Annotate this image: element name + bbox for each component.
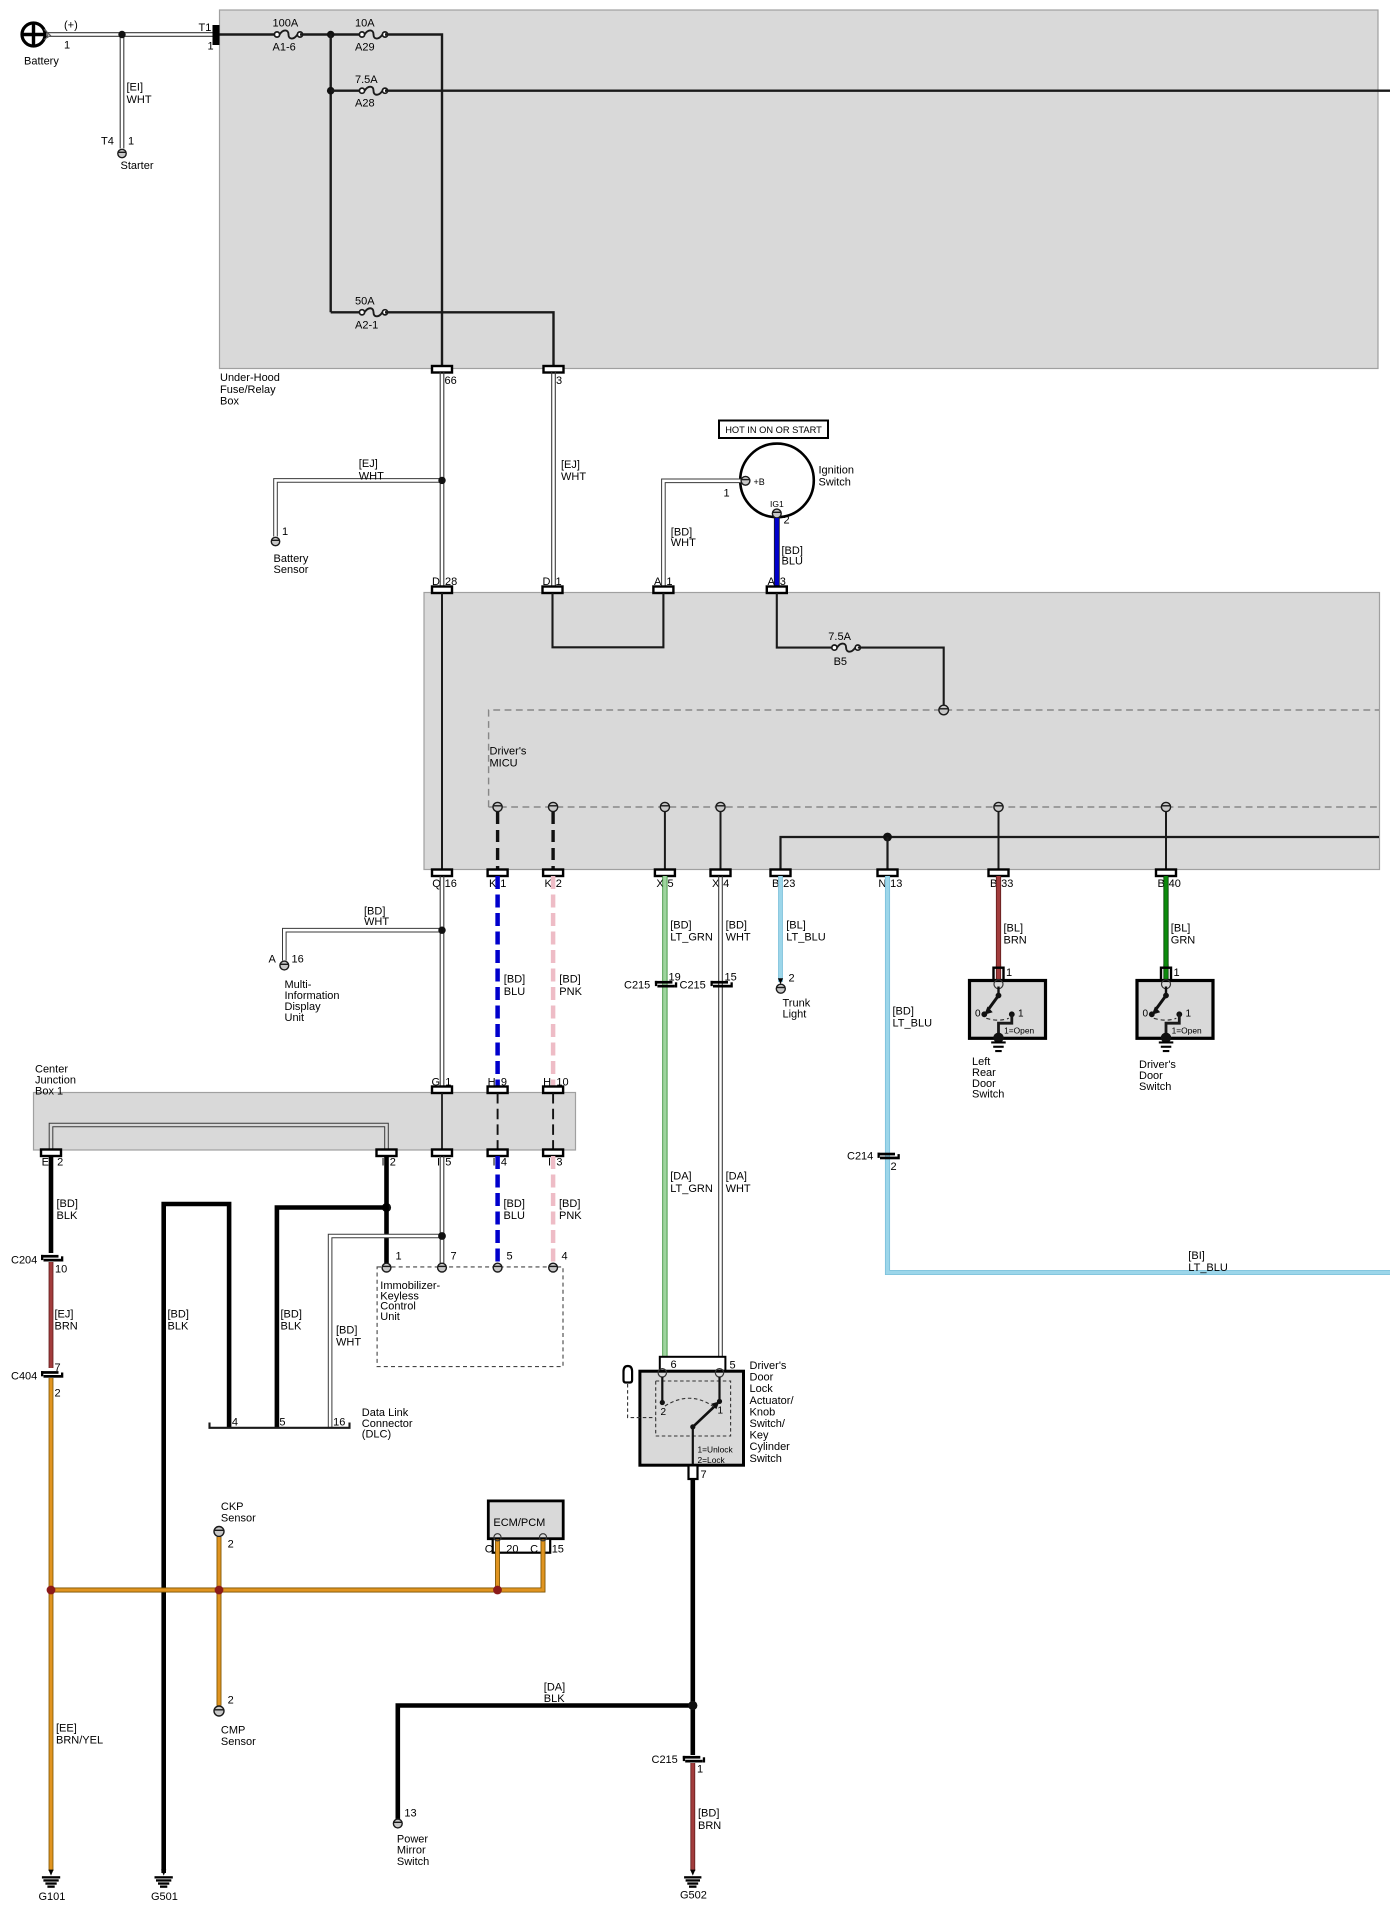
wire 3 to D1 [EJ] WHT [551, 372, 553, 587]
svg-text:1: 1 [718, 1406, 724, 1417]
svg-text:4: 4 [232, 1416, 238, 1428]
svg-text:HOT IN ON OR START: HOT IN ON OR START [725, 425, 822, 435]
svg-text:[BI]: [BI] [1188, 1250, 1205, 1262]
svg-text:BLU: BLU [782, 556, 803, 568]
svg-text:BLK: BLK [544, 1693, 565, 1705]
connector 3 [544, 366, 564, 373]
svg-text:MICU: MICU [490, 758, 518, 770]
key dashed line [628, 1384, 656, 1418]
connector I 2 CJB bottom [377, 1150, 397, 1157]
ground symbol [991, 1041, 1006, 1043]
wire Q16 to G1 [BD] WHT [439, 876, 441, 1087]
connector G 1 CJB top [432, 1087, 452, 1094]
svg-text:A1-6: A1-6 [273, 41, 296, 53]
svg-text:BRN/YEL: BRN/YEL [56, 1734, 103, 1746]
connector D 1 MICU top [543, 587, 563, 594]
wire C215 to G502 [BD] BRN [690, 1763, 695, 1871]
wire T1 to 100A fuse [220, 33, 278, 35]
svg-text:5: 5 [668, 878, 674, 890]
svg-text:BLK: BLK [168, 1320, 189, 1332]
svg-text:15: 15 [552, 1543, 564, 1555]
svg-text:16: 16 [445, 878, 457, 890]
wire K2 to H10 [BD] PNK dashed [551, 876, 556, 1087]
wire G501 to DLC4 BLK [164, 1204, 229, 1873]
svg-text:Sensor: Sensor [274, 564, 309, 576]
svg-text:A2-1: A2-1 [355, 319, 378, 331]
wire branch to battery sensor [276, 480, 443, 536]
dashed I4 to pin5 [BD] BLU [495, 1156, 500, 1263]
svg-text:PNK: PNK [559, 986, 582, 998]
svg-text:[BD]: [BD] [559, 1198, 580, 1210]
svg-text:13: 13 [404, 1807, 416, 1819]
svg-text:C215: C215 [624, 980, 650, 992]
wire X4 to actuator WHT [718, 876, 720, 1373]
ECM/PCM box [488, 1501, 563, 1539]
connector pin1 Left Rear Door Switch [994, 968, 1004, 981]
svg-text:WHT: WHT [561, 471, 586, 483]
svg-text:0: 0 [975, 1009, 981, 1020]
svg-text:Key: Key [750, 1430, 769, 1442]
svg-text:100A: 100A [273, 18, 299, 30]
connector D 28 MICU top [432, 587, 452, 594]
fuse 50A A2-1 [365, 308, 383, 316]
svg-text:2=Lock: 2=Lock [698, 1455, 726, 1465]
MICU internal terminal x=998.5 [994, 802, 1003, 811]
contact 1 to ground path [999, 1014, 1012, 1037]
svg-text:G502: G502 [680, 1890, 707, 1902]
connector K 2 MICU bottom [543, 870, 563, 877]
wire junction to immobilizer pin1 [384, 1208, 389, 1264]
switch pivot line [997, 987, 999, 996]
wire 50A to connector 3 [385, 312, 554, 368]
IG1 terminal [772, 509, 781, 518]
terminal on B5 line [939, 705, 949, 715]
Driver's MICU box body [424, 593, 1380, 870]
ground symbol [1159, 1041, 1174, 1043]
svg-text:33: 33 [1001, 878, 1013, 890]
wire X4 internal [720, 812, 722, 870]
wire A3 to B5 fuse [777, 593, 835, 648]
svg-text:1: 1 [724, 487, 730, 499]
svg-text:BRN: BRN [1004, 935, 1027, 947]
ground G101 [48, 1870, 53, 1876]
svg-text:[BD]: [BD] [168, 1308, 189, 1320]
svg-text:LT_BLU: LT_BLU [1188, 1262, 1228, 1274]
DLC bracket [210, 1423, 350, 1428]
svg-text:40: 40 [1169, 878, 1181, 890]
svg-text:ECM/PCM: ECM/PCM [493, 1517, 545, 1529]
svg-text:Sensor: Sensor [221, 1513, 256, 1525]
actuator travel arc [665, 1398, 714, 1407]
svg-text:[DA]: [DA] [726, 1170, 747, 1182]
pivot dot [996, 993, 1002, 999]
wire B5 fuse to terminal [858, 648, 944, 706]
terminal T1 [213, 25, 220, 45]
svg-text:Ignition: Ignition [819, 464, 854, 476]
wire +B to A1 [663, 481, 745, 587]
connector I 5 CJB bottom [432, 1150, 452, 1157]
svg-text:2: 2 [556, 878, 562, 890]
svg-text:WHT: WHT [336, 1337, 361, 1349]
svg-text:LT_BLU: LT_BLU [786, 932, 826, 944]
wire 66 to D28 [EJ] WHT [439, 372, 441, 587]
fuse 7.5A A28 [365, 87, 383, 95]
contact 1 dot [1009, 1011, 1015, 1017]
svg-text:B5: B5 [834, 656, 847, 668]
connector B 23 MICU bottom [771, 870, 791, 877]
svg-text:I: I [381, 1157, 384, 1169]
svg-text:50A: 50A [355, 296, 375, 308]
fuse 10A A29 [365, 30, 383, 38]
wire battery to T1 [40, 32, 214, 34]
svg-text:WHT: WHT [671, 537, 696, 549]
connector E 2 CJB bottom [41, 1150, 61, 1157]
dashed wire K1 internal [496, 812, 499, 870]
wire junction down to 7.5A level [330, 35, 332, 313]
lever [989, 996, 999, 1009]
svg-text:20: 20 [506, 1543, 518, 1555]
svg-text:0: 0 [1143, 1009, 1149, 1020]
trunk light terminal [776, 984, 785, 993]
svg-text:2: 2 [228, 1539, 234, 1551]
starter terminal [118, 149, 126, 157]
dashed travel arc [1154, 1018, 1177, 1020]
svg-text:[BD]: [BD] [559, 973, 580, 985]
contact 1 dot [1176, 1011, 1182, 1017]
svg-text:G: G [431, 1077, 440, 1089]
svg-text:[EE]: [EE] [56, 1722, 77, 1734]
wire E2 down BLK [49, 1156, 54, 1253]
svg-text:1: 1 [697, 1763, 703, 1775]
svg-text:1: 1 [208, 41, 214, 53]
svg-text:[EI]: [EI] [127, 82, 144, 94]
dashed I3 to pin4 [BD] PNK [551, 1156, 556, 1263]
wire branch to MID unit [284, 930, 442, 960]
svg-text:Switch/: Switch/ [750, 1418, 786, 1430]
wire I5 to junction WHT [439, 1156, 441, 1236]
ignition switch circle [740, 444, 814, 518]
svg-text:1: 1 [556, 576, 562, 588]
ground dot [993, 1033, 1003, 1043]
svg-text:A: A [269, 953, 277, 965]
svg-text:WHT: WHT [726, 932, 751, 944]
Driver's Door Switch box [1137, 981, 1213, 1039]
fuse 7.5A B5 [837, 644, 855, 652]
wire junction to 50A fuse [331, 311, 362, 313]
svg-text:[BL]: [BL] [786, 919, 806, 931]
svg-text:Lock: Lock [750, 1383, 774, 1395]
svg-text:A28: A28 [355, 98, 375, 110]
key symbol [624, 1366, 633, 1383]
wire junction to DLC5 BLK [277, 1208, 387, 1428]
Left Rear Door Switch box [970, 981, 1046, 1039]
connector B 33 MICU bottom [989, 870, 1009, 877]
svg-text:H: H [488, 1077, 496, 1089]
svg-text:[BD]: [BD] [726, 919, 747, 931]
wire into Left Rear Door Switch [996, 965, 1001, 980]
svg-text:BRN: BRN [55, 1320, 78, 1332]
lever [1157, 996, 1167, 1009]
wire B23 riser and bus [781, 837, 1380, 870]
svg-text:Sensor: Sensor [221, 1736, 256, 1748]
wire B33 internal [998, 812, 1000, 870]
pivot dot [1163, 993, 1169, 999]
dashed travel arc [986, 1018, 1009, 1020]
ground dot [1161, 1033, 1171, 1043]
wire D28 to Q16 [441, 593, 443, 870]
lever arrow [984, 1007, 992, 1015]
svg-text:+B: +B [754, 477, 765, 487]
svg-text:Under-Hood: Under-Hood [220, 372, 280, 384]
svg-text:C214: C214 [847, 1151, 873, 1163]
wire junction to DLC16 WHT [330, 1236, 442, 1427]
svg-text:3: 3 [556, 375, 562, 387]
svg-text:A: A [767, 576, 775, 588]
svg-text:WHT: WHT [726, 1183, 751, 1195]
orange BRN/YEL wire net [217, 1537, 222, 1706]
junction dot DA BLK [688, 1701, 697, 1710]
svg-text:Switch: Switch [972, 1089, 1004, 1101]
ring terminal [1162, 980, 1171, 989]
svg-text:[DA]: [DA] [670, 1170, 691, 1182]
connector pin1 Driver's Door Switch [1161, 968, 1171, 981]
svg-text:1: 1 [128, 136, 134, 148]
wire 7.5A to right edge [385, 89, 1390, 91]
wire I2 to junction BLK [384, 1156, 389, 1208]
svg-text:Box: Box [220, 395, 239, 407]
svg-text:BLK: BLK [281, 1320, 302, 1332]
svg-text:WHT: WHT [364, 916, 389, 928]
svg-text:Mirror: Mirror [397, 1845, 426, 1857]
svg-text:5: 5 [279, 1416, 285, 1428]
inline connector C204 [41, 1255, 59, 1258]
Under-Hood Fuse/Relay Box body [220, 10, 1379, 369]
hot in on or start box [719, 421, 828, 439]
immobilizer pin terminals [382, 1263, 391, 1272]
svg-text:4: 4 [501, 1157, 507, 1169]
svg-text:Unit: Unit [285, 1012, 305, 1024]
wire B40 internal [1165, 812, 1167, 870]
connector H 9 CJB top [488, 1087, 508, 1094]
svg-text:2: 2 [891, 1161, 897, 1173]
svg-text:Switch: Switch [1139, 1081, 1171, 1093]
svg-text:10A: 10A [355, 18, 375, 30]
svg-text:A: A [654, 576, 662, 588]
actuator pin2 line [661, 1377, 663, 1403]
svg-text:G101: G101 [39, 1891, 66, 1903]
wire junction to starter [119, 35, 121, 149]
svg-text:1: 1 [666, 576, 672, 588]
svg-text:LT_BLU: LT_BLU [893, 1018, 933, 1030]
svg-text:7: 7 [451, 1251, 457, 1263]
svg-text:5: 5 [730, 1359, 736, 1371]
MICU internal terminal x=1166 [1161, 802, 1170, 811]
svg-text:[BD]: [BD] [504, 1198, 525, 1210]
svg-text:2: 2 [228, 1695, 234, 1707]
svg-text:CMP: CMP [221, 1725, 245, 1737]
wire B23 to trunk light LT_BLU [778, 876, 783, 982]
svg-text:C204: C204 [11, 1255, 37, 1267]
MICU internal terminal x=720.5 [716, 802, 725, 811]
wire X5 to actuator [BD]/[DA] LT_GRN [662, 876, 667, 1373]
svg-text:5: 5 [445, 1157, 451, 1169]
svg-text:[BD]: [BD] [504, 973, 525, 985]
switch pivot line [1165, 987, 1167, 996]
actuator lever arrow [711, 1401, 719, 1409]
wire N13 riser [886, 837, 888, 870]
MICU internal terminal x=664.9 [660, 802, 669, 811]
svg-text:[BD]: [BD] [57, 1198, 78, 1210]
svg-text:Switch: Switch [819, 477, 851, 489]
svg-text:4: 4 [723, 878, 729, 890]
svg-text:1: 1 [1006, 967, 1012, 979]
svg-text:1: 1 [445, 1077, 451, 1089]
svg-text:GRN: GRN [1171, 935, 1196, 947]
connector B 40 MICU bottom [1156, 870, 1176, 877]
inline connector C404 [41, 1371, 59, 1374]
svg-text:13: 13 [890, 878, 902, 890]
svg-text:6: 6 [671, 1359, 677, 1371]
svg-text:Actuator/: Actuator/ [750, 1395, 795, 1407]
connector Q 16 MICU bottom [432, 870, 452, 877]
svg-text:WHT: WHT [359, 470, 384, 482]
svg-text:BLK: BLK [57, 1210, 78, 1222]
svg-text:[EJ]: [EJ] [359, 458, 378, 470]
wire N13 LT_BLU long [888, 876, 1390, 1273]
svg-text:C215: C215 [652, 1754, 678, 1766]
svg-text:[BD]: [BD] [670, 919, 691, 931]
svg-text:[EJ]: [EJ] [561, 459, 580, 471]
dashed wire K2 internal [551, 812, 554, 870]
MICU inner dashed box [489, 710, 1379, 807]
actuator pin1 line [718, 1377, 720, 1401]
wire IG1 to A3 [BD] BLU [774, 518, 780, 587]
svg-text:[BD]: [BD] [336, 1325, 357, 1337]
svg-text:[BL]: [BL] [1171, 922, 1191, 934]
svg-text:BLU: BLU [504, 1210, 525, 1222]
Center Junction Box 1 body [34, 1093, 576, 1151]
svg-text:[BL]: [BL] [1004, 922, 1024, 934]
svg-text:Knob: Knob [750, 1406, 776, 1418]
svg-text:[BD]: [BD] [893, 1005, 914, 1017]
power mirror terminal [393, 1819, 402, 1828]
svg-text:16: 16 [333, 1416, 345, 1428]
fuse 100A A1-6 [280, 30, 298, 38]
junction dot MID branch [438, 927, 445, 934]
dashed H9 to I4 [497, 1093, 499, 1150]
svg-text:Door: Door [750, 1372, 774, 1384]
inline connector C215-15 [711, 981, 729, 984]
svg-text:Switch: Switch [750, 1453, 782, 1465]
CKP terminal [214, 1527, 224, 1537]
svg-text:23: 23 [783, 878, 795, 890]
svg-text:1=Open: 1=Open [1004, 1026, 1034, 1036]
svg-text:Cylinder: Cylinder [750, 1441, 791, 1453]
ground G502 [690, 1870, 695, 1876]
svg-text:1=Open: 1=Open [1172, 1026, 1202, 1036]
svg-text:Unit: Unit [380, 1311, 400, 1323]
junction dot battery/starter [118, 31, 125, 38]
junction dot orange c20 [493, 1586, 502, 1595]
contact 0 dot [981, 1011, 987, 1017]
wire C404 to G101 BRN/YEL [49, 1378, 54, 1871]
actuator pivot to pin7 [692, 1427, 694, 1465]
svg-text:Driver's: Driver's [750, 1360, 787, 1372]
ECM ring 20 [494, 1534, 501, 1541]
junction dot battery sensor branch [438, 477, 445, 484]
actuator connector housing [660, 1357, 726, 1371]
battery B+ symbol [22, 23, 45, 46]
svg-text:1: 1 [1018, 1009, 1024, 1020]
inline connector C215-19 [655, 981, 673, 984]
actuator pin7 connector [689, 1465, 698, 1479]
immobilizer dashed box [377, 1267, 563, 1367]
svg-text:10: 10 [55, 1263, 67, 1275]
ring terminal 5 [715, 1369, 723, 1377]
svg-text:2: 2 [390, 1157, 396, 1169]
svg-text:2: 2 [789, 972, 795, 984]
MID terminal [280, 961, 289, 970]
CMP terminal [214, 1706, 224, 1716]
svg-text:I: I [437, 1157, 440, 1169]
actuator pivot dot [690, 1424, 695, 1429]
wire D1 to A1 u-shape [553, 593, 664, 647]
svg-text:BLU: BLU [504, 986, 525, 998]
svg-text:C: C [485, 1543, 493, 1555]
battery sensor terminal [271, 537, 279, 545]
svg-text:D: D [432, 576, 440, 588]
svg-text:Switch: Switch [397, 1856, 429, 1868]
actuator box [640, 1371, 744, 1465]
svg-text:28: 28 [445, 576, 457, 588]
svg-text:D: D [543, 576, 551, 588]
connector A 3 MICU top [767, 587, 787, 594]
svg-text:1: 1 [500, 878, 506, 890]
svg-text:BRN: BRN [698, 1820, 721, 1832]
svg-text:A29: A29 [355, 41, 375, 53]
svg-text:C: C [530, 1543, 538, 1555]
svg-text:Fuse/Relay: Fuse/Relay [220, 384, 276, 396]
svg-text:1: 1 [1186, 1009, 1192, 1020]
ground G501 [161, 1870, 166, 1876]
connector I 3 CJB bottom [543, 1150, 563, 1157]
svg-text:1: 1 [396, 1251, 402, 1263]
wire pin7 to C215 black [690, 1479, 695, 1755]
svg-text:7.5A: 7.5A [355, 74, 378, 86]
wire G1 to I5 inside CJB [441, 1093, 443, 1150]
ECM connector strip [493, 1539, 551, 1553]
svg-text:2: 2 [55, 1388, 61, 1400]
svg-text:66: 66 [445, 375, 457, 387]
svg-text:9: 9 [501, 1077, 507, 1089]
svg-text:C215: C215 [680, 980, 706, 992]
svg-text:LT_GRN: LT_GRN [670, 932, 713, 944]
svg-text:WHT: WHT [127, 94, 152, 106]
connector X 4 MICU bottom [711, 870, 731, 877]
dashed H10 to I3 [552, 1093, 554, 1150]
svg-text:(DLC): (DLC) [362, 1429, 391, 1441]
svg-text:Power: Power [397, 1833, 429, 1845]
svg-text:10: 10 [556, 1077, 568, 1089]
wire C204 to C404 [EJ] BRN [49, 1262, 54, 1368]
actuator pin2 dot [660, 1400, 665, 1405]
svg-text:4: 4 [562, 1251, 568, 1263]
MICU internal terminal x=497.6 [493, 802, 502, 811]
svg-text:Light: Light [783, 1009, 807, 1021]
junction dot orange ckp [215, 1586, 224, 1595]
junction dot N13 [883, 833, 892, 842]
wire B33 [BL] BRN [996, 876, 1001, 967]
